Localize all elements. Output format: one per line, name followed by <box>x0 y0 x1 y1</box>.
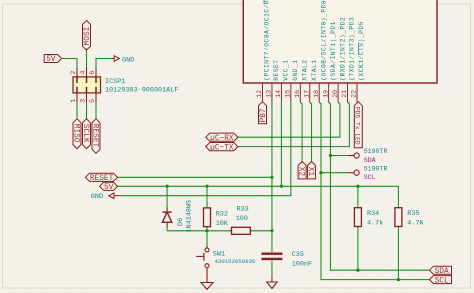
svg-text:GND: GND <box>122 56 134 64</box>
svg-text:15: 15 <box>285 90 292 98</box>
svg-text:5V: 5V <box>104 184 114 192</box>
svg-text:XTAL1: XTAL1 <box>311 59 318 80</box>
svg-text:4.7K: 4.7K <box>407 220 424 228</box>
svg-text:16: 16 <box>294 90 301 98</box>
wire 5V to diode D6 <box>166 186 168 207</box>
IC U1 microcontroller body <box>243 0 437 83</box>
svg-text:(SDA/INT1)_PD1: (SDA/INT1)_PD1 <box>330 21 337 81</box>
power symbol GND (top) <box>112 56 134 65</box>
wire diode D6 to bottom row <box>166 228 168 231</box>
svg-text:1N4148WS: 1N4148WS <box>186 200 194 233</box>
svg-text:1: 1 <box>70 99 78 103</box>
resistor R32 <box>204 208 211 227</box>
wire ICSP1 pin 6 to GND <box>96 59 112 68</box>
label RESET (left) <box>85 173 117 183</box>
svg-text:20: 20 <box>332 90 339 98</box>
IC pin 16 <box>294 83 301 102</box>
resistor R34 <box>354 208 361 227</box>
wire R34 to SDA row <box>357 227 359 271</box>
svg-text:PD5_Tx_LED: PD5_Tx_LED <box>354 107 361 145</box>
switch SW1 <box>196 246 209 278</box>
svg-text:5: 5 <box>89 99 97 103</box>
svg-text:5190TR: 5190TR <box>364 148 388 155</box>
junction node D6/5V <box>165 185 168 188</box>
svg-text:(RXD1/INT2)_PD2: (RXD1/INT2)_PD2 <box>339 17 346 81</box>
svg-text:R32: R32 <box>216 210 228 218</box>
wire C35 column upper <box>271 231 273 252</box>
junction node R35/SCL row <box>397 278 400 281</box>
svg-text:MISO: MISO <box>71 124 79 143</box>
label µC−TX <box>206 143 238 153</box>
svg-text:SDA: SDA <box>364 157 376 164</box>
svg-text:VCC_1: VCC_1 <box>283 59 290 80</box>
wire R35 to SCL row <box>397 227 399 280</box>
ICSP1 pin 6 <box>89 68 97 77</box>
label MISO <box>71 119 81 149</box>
label PD5_Tx_LED <box>354 102 363 148</box>
label X1 <box>306 162 316 179</box>
label SCL (bottom right) <box>429 276 451 286</box>
label 5V (top) <box>44 55 61 65</box>
ICSP1 pin 3 <box>80 93 88 103</box>
svg-text:PB7: PB7 <box>260 108 268 122</box>
svg-text:19: 19 <box>322 90 329 98</box>
svg-text:13: 13 <box>266 90 273 98</box>
IC pin 17 <box>303 83 310 102</box>
wire RESET row <box>118 176 272 178</box>
connector ICSP1 <box>73 77 101 93</box>
wire MOSI label to ICSP1 pin 4 <box>86 49 88 68</box>
svg-text:2: 2 <box>70 71 78 75</box>
wire IC pin 18 SCL column to SCL label <box>319 102 429 279</box>
IC pin 15 <box>285 83 292 102</box>
wire ICSP1 pin 5 to RESET label <box>95 102 97 119</box>
wire IC pin 19 SDA column to SDA label <box>329 102 430 270</box>
wire IC pin 16 to X2 label <box>300 102 302 161</box>
power symbol GND (left) <box>91 193 119 201</box>
IC pin 14 <box>275 83 282 102</box>
svg-text:SCL: SCL <box>364 174 376 181</box>
wire SCL to testpoint TP2 <box>321 172 348 174</box>
wire 5V to ICSP1 pin 2 <box>62 59 77 68</box>
capacitor C35 <box>261 254 282 259</box>
wire ICSP1 pin 3 to SCLK label <box>86 102 88 119</box>
svg-text:10K: 10K <box>216 220 229 228</box>
wire ICSP1 pin 1 to MISO label <box>76 102 78 119</box>
svg-text:RESET: RESET <box>90 124 98 148</box>
wire uC-RX to IC pin 20 <box>238 102 340 137</box>
label RESET (vertical) <box>90 119 100 154</box>
svg-text:R34: R34 <box>367 210 379 218</box>
svg-text:ICSP1: ICSP1 <box>105 78 125 86</box>
ICSP1 pin 5 <box>89 93 97 103</box>
wire bottom row D6 to R33 <box>167 230 228 232</box>
testpoint TP2 SCL 5190TR <box>348 170 359 175</box>
resistor R35 <box>395 208 402 227</box>
svg-text:6: 6 <box>89 71 97 75</box>
wire SDA to testpoint TP1 <box>330 155 348 157</box>
IC pin 20 <box>332 83 339 102</box>
label µC−RX <box>206 133 238 143</box>
svg-text:12: 12 <box>256 90 263 98</box>
svg-text:SCL: SCL <box>435 277 449 285</box>
IC pin 19 <box>322 83 329 102</box>
svg-text:17: 17 <box>303 90 310 98</box>
IC pin 12 <box>256 83 263 102</box>
svg-text:X1: X1 <box>306 167 314 177</box>
wire IC pin 17 to X1 label <box>310 102 312 161</box>
svg-text:5V: 5V <box>46 56 56 64</box>
label X2 <box>297 162 307 179</box>
IC pin 22 <box>351 83 358 102</box>
IC pin 13 <box>266 83 273 102</box>
svg-text:(TXD1/INT3)_PD3: (TXD1/INT3)_PD3 <box>349 17 356 81</box>
resistor R33 (horizontal) <box>228 227 252 234</box>
svg-text:R33: R33 <box>237 206 249 214</box>
svg-text:µC−RX: µC−RX <box>210 135 234 143</box>
svg-text:SCLK: SCLK <box>81 124 89 143</box>
junction node R32/5V <box>205 185 208 188</box>
junction node pin13/RESET <box>270 176 273 179</box>
wire C35 to ground <box>271 261 273 278</box>
svg-text:C35: C35 <box>292 251 304 259</box>
diode D6 <box>162 207 171 228</box>
svg-text:21: 21 <box>341 90 348 98</box>
svg-text:22: 22 <box>351 90 358 98</box>
wire GND row to IC pin 15 <box>119 102 291 195</box>
svg-text:R35: R35 <box>407 210 419 218</box>
ICSP1 pin 2 <box>70 68 78 77</box>
wire 5V row <box>118 186 399 207</box>
ground symbol below C35 <box>267 278 277 289</box>
wire R33 to C35 column <box>252 230 272 232</box>
junction node R32/SW1 node <box>205 229 208 232</box>
junction node R33/C35 node <box>270 229 273 232</box>
svg-text:GND_1: GND_1 <box>292 59 299 80</box>
svg-text:430152050836: 430152050836 <box>215 258 257 265</box>
svg-text:100: 100 <box>236 215 248 223</box>
junction node R34/SDA row <box>356 269 359 272</box>
IC pin 21 <box>341 83 348 102</box>
wire bottom row to SW1 <box>206 231 208 246</box>
IC pin 18 <box>313 83 320 102</box>
svg-text:SDA: SDA <box>435 268 449 276</box>
svg-text:5190TR: 5190TR <box>364 165 388 172</box>
wire IC pin 13 RESET column <box>271 102 273 231</box>
svg-text:100nF: 100nF <box>292 260 312 268</box>
junction node pin14/5V <box>280 185 283 188</box>
svg-text:14: 14 <box>275 90 282 98</box>
svg-text:10129383-906001ALF: 10129383-906001ALF <box>105 87 178 95</box>
wire 5V to R34 <box>357 186 359 207</box>
junction node R34/5V <box>356 185 359 188</box>
label MOSI <box>83 20 93 50</box>
svg-text:3: 3 <box>80 99 88 103</box>
ICSP1 pin 1 <box>70 93 78 103</box>
svg-text:4.7k: 4.7k <box>367 220 383 228</box>
wire R32 to bottom row <box>206 227 208 231</box>
label PB7 <box>259 102 269 124</box>
svg-text:D6: D6 <box>177 218 185 226</box>
junction node SDA testpoint <box>329 154 332 157</box>
svg-text:X2: X2 <box>297 167 305 177</box>
ICSP1 pin 4 <box>80 68 88 77</box>
label 5V (left) <box>100 182 118 192</box>
svg-text:MOSI: MOSI <box>84 27 92 46</box>
wire 5V to R32 <box>206 186 208 208</box>
svg-text:RESET: RESET <box>273 59 280 80</box>
wire IC pin 14 VCC to 5V row <box>280 102 282 186</box>
testpoint TP1 SDA 5190TR <box>348 153 359 158</box>
svg-text:18: 18 <box>313 90 320 98</box>
svg-text:XTAL2: XTAL2 <box>302 59 309 80</box>
svg-text:GND: GND <box>91 193 103 201</box>
ground symbol below SW1 <box>201 278 213 289</box>
label SDA (bottom right) <box>429 266 451 276</box>
wire uC-TX to IC pin 21 <box>238 102 350 146</box>
svg-text:4: 4 <box>80 71 88 75</box>
svg-text:(XCK1/CTS)_PD5: (XCK1/CTS)_PD5 <box>358 21 365 81</box>
svg-text:(OC0B/SCL/INT0)_PD0: (OC0B/SCL/INT0)_PD0 <box>320 0 327 81</box>
label SCLK <box>81 119 91 149</box>
svg-text:µC−TX: µC−TX <box>210 144 234 152</box>
junction node SCL testpoint <box>319 171 322 174</box>
svg-text:(PCINT7/OC0A/OC1C/RTS)_PB7: (PCINT7/OC0A/OC1C/RTS)_PB7 <box>264 0 271 81</box>
